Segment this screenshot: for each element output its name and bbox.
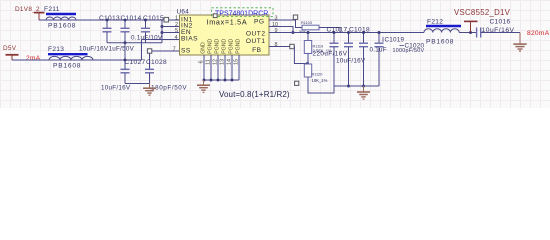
svg-text:PGND: PGND bbox=[222, 39, 228, 54]
wire FB bbox=[269, 46, 290, 48]
ground under C1028 bbox=[143, 84, 156, 96]
svg-text:6: 6 bbox=[199, 60, 205, 63]
svg-text:56K: 56K bbox=[299, 30, 306, 34]
svg-text:C1018: C1018 bbox=[349, 27, 370, 34]
svg-text:R1120: R1120 bbox=[312, 72, 323, 76]
svg-text:5: 5 bbox=[175, 28, 178, 34]
junction D5V C1027 bbox=[124, 59, 127, 62]
svg-text:10uF/16V: 10uF/16V bbox=[482, 27, 515, 34]
wire after F212 bbox=[459, 32, 476, 34]
svg-text:C1016: C1016 bbox=[490, 19, 511, 26]
svg-text:BIAS: BIAS bbox=[181, 36, 198, 43]
marker square on IN1 wire bbox=[164, 17, 169, 22]
IC bottom pins 6,11-15 bbox=[204, 55, 239, 80]
capacitor C1015 bbox=[131, 15, 164, 43]
wire IN2/EN tap vertical x162 bbox=[161, 20, 163, 43]
svg-text:VSC8552_D1V: VSC8552_D1V bbox=[454, 8, 511, 17]
svg-text:820mA: 820mA bbox=[527, 30, 550, 37]
junction C1015 bbox=[144, 19, 147, 22]
resistor R1103 (PG pullup) bbox=[299, 21, 340, 34]
marker square floating bbox=[295, 81, 299, 85]
svg-text:7: 7 bbox=[173, 47, 176, 53]
svg-text:PGND: PGND bbox=[229, 39, 235, 54]
svg-text:OUT2: OUT2 bbox=[246, 30, 266, 37]
svg-text:12: 12 bbox=[213, 59, 219, 65]
junction C1020 rail bbox=[378, 31, 381, 34]
capacitor C1020 bbox=[375, 33, 425, 87]
svg-text:PGND: PGND bbox=[215, 39, 221, 54]
svg-text:C1013: C1013 bbox=[99, 15, 120, 22]
wire bottom-right rail y86 bbox=[334, 85, 379, 87]
junction C1018 rail bbox=[347, 31, 350, 34]
svg-text:PGND: PGND bbox=[208, 39, 214, 54]
svg-text:C1027: C1027 bbox=[125, 59, 146, 66]
svg-text:Imax=1.5A: Imax=1.5A bbox=[207, 18, 248, 27]
wire cap bottom rail y42.7 bbox=[107, 42, 162, 44]
marker square SS bbox=[147, 49, 151, 53]
wire PG y20 bbox=[281, 19, 296, 21]
selection dashes around part number bbox=[212, 8, 274, 17]
wire ground rail under IC y78 bbox=[204, 79, 239, 81]
capacitor C1013 bbox=[99, 15, 120, 43]
svg-text:3: 3 bbox=[275, 16, 278, 22]
junction C1019 rail bbox=[362, 31, 365, 34]
svg-text:10uF/16V: 10uF/16V bbox=[101, 85, 131, 92]
svg-text:1uF/50V: 1uF/50V bbox=[109, 46, 135, 53]
svg-text:PGND: PGND bbox=[236, 39, 242, 54]
ferrite bead F213 bbox=[48, 46, 93, 69]
capacitor C1016 bbox=[477, 19, 520, 38]
svg-text:14: 14 bbox=[227, 59, 233, 65]
op IC U64 TPS74801 bbox=[177, 9, 270, 55]
svg-text:PB1608: PB1608 bbox=[48, 23, 76, 30]
svg-text:2mA: 2mA bbox=[26, 55, 41, 62]
svg-text:FB: FB bbox=[252, 47, 262, 54]
wire PG down to resistor bbox=[296, 19, 304, 27]
marker square PG bbox=[293, 15, 297, 19]
svg-text:SS: SS bbox=[181, 47, 191, 54]
svg-text:8: 8 bbox=[275, 42, 278, 48]
svg-text:C1014: C1014 bbox=[121, 15, 142, 22]
svg-text:C1019: C1019 bbox=[385, 37, 405, 44]
svg-text:PG: PG bbox=[254, 18, 265, 25]
capacitor C1018 bbox=[336, 27, 370, 87]
wire OUT2 bbox=[269, 27, 293, 33]
svg-text:0.1uF: 0.1uF bbox=[370, 47, 387, 54]
svg-text:11: 11 bbox=[206, 59, 212, 65]
wire D5V rail y60 bbox=[12, 59, 142, 61]
junction VSC8552 rail bbox=[469, 31, 472, 34]
wire SS bbox=[152, 50, 180, 52]
wire EN bbox=[162, 32, 180, 34]
junction rail bbox=[124, 41, 127, 44]
marker square part number bbox=[213, 14, 217, 18]
svg-text:OUT1: OUT1 bbox=[246, 38, 266, 45]
ferrite bead F211 bbox=[44, 6, 76, 30]
ground far right bbox=[513, 33, 526, 52]
svg-text:PB1608: PB1608 bbox=[426, 39, 454, 46]
wire OUT1 / output rail y32.5 bbox=[269, 32, 424, 34]
svg-text:R1103: R1103 bbox=[301, 21, 312, 25]
svg-text:13: 13 bbox=[220, 59, 226, 65]
svg-text:Vout=0.8(1+R1/R2): Vout=0.8(1+R1/R2) bbox=[219, 90, 290, 99]
svg-text:1000pF/50V: 1000pF/50V bbox=[393, 48, 425, 54]
svg-text:GND: GND bbox=[201, 42, 207, 54]
capacitor C1027 bbox=[101, 43, 145, 92]
svg-text:F211: F211 bbox=[44, 6, 60, 13]
svg-text:15: 15 bbox=[234, 59, 240, 65]
svg-text:C1017: C1017 bbox=[327, 27, 348, 34]
ferrite bead F212 bbox=[424, 18, 461, 45]
svg-text:F212: F212 bbox=[427, 18, 443, 25]
svg-text:C1028: C1028 bbox=[146, 59, 167, 66]
wire BIAS bbox=[142, 39, 181, 41]
power net D1V8_2 bbox=[15, 6, 45, 20]
svg-text:D5V: D5V bbox=[3, 45, 17, 52]
svg-text:4: 4 bbox=[175, 35, 178, 41]
junction OUT2 rail bbox=[292, 31, 295, 34]
svg-text:220uF/16V: 220uF/16V bbox=[313, 51, 348, 58]
svg-text:1: 1 bbox=[175, 16, 178, 22]
svg-text:9: 9 bbox=[275, 28, 278, 34]
ground right block bbox=[357, 86, 370, 99]
svg-text:10K_1%: 10K_1% bbox=[312, 78, 328, 83]
junction C1018 gnd rail bbox=[347, 85, 350, 88]
svg-text:10uF/16V: 10uF/16V bbox=[336, 58, 366, 65]
svg-text:0.1uF/10V: 0.1uF/10V bbox=[131, 35, 163, 42]
resistor R1 (top of divider) bbox=[304, 31, 332, 64]
power net D5V bbox=[3, 45, 19, 60]
ground under IC bbox=[197, 80, 210, 92]
marker square FB bbox=[290, 44, 294, 48]
capacitor C1019 bbox=[359, 33, 405, 87]
bottom pin numbers bbox=[199, 59, 240, 65]
capacitor C1014 bbox=[121, 15, 142, 43]
junction C1013 bbox=[106, 19, 109, 22]
wire D1V8 rail y20 bbox=[39, 19, 180, 21]
capacitor C1017 bbox=[313, 27, 348, 87]
resistor R2 (bottom of divider) bbox=[304, 64, 334, 93]
svg-text:PB1608: PB1608 bbox=[53, 63, 81, 70]
junction C1019 gnd rail bbox=[362, 85, 365, 88]
svg-text:F213: F213 bbox=[48, 46, 64, 53]
junction C1017 rail bbox=[333, 31, 336, 34]
svg-text:10uF/16V: 10uF/16V bbox=[79, 46, 109, 53]
wire bottom-left rail y83 bbox=[125, 83, 150, 85]
svg-text:180pF/50V: 180pF/50V bbox=[151, 85, 187, 92]
power net VSC8552_D1V bbox=[454, 8, 511, 32]
wire IN2 bbox=[162, 26, 180, 28]
junction C1014 bbox=[124, 19, 127, 22]
capacitor C1028 bbox=[145, 53, 187, 91]
